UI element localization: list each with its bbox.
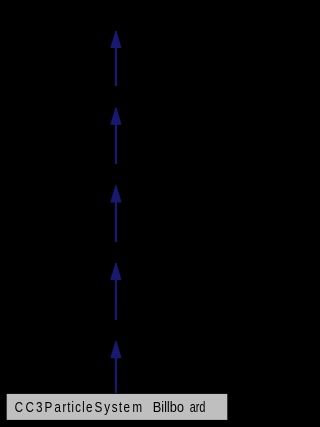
- svg-text:S: S: [95, 399, 103, 416]
- svg-text:l: l: [82, 399, 85, 416]
- arrow edge 2: [111, 108, 122, 164]
- inheritance diagram: CC3ParticleSystemBillboard: [0, 0, 232, 427]
- arrow edge 4: [111, 263, 122, 320]
- arrow edge 1 (topmost, to root base class): [111, 31, 122, 86]
- svg-text:P: P: [45, 399, 53, 416]
- svg-text:y: y: [104, 399, 110, 416]
- svg-text:C: C: [15, 399, 24, 416]
- arrow edge 5 (from CC3ParticleSystemBillboard node): [111, 341, 122, 393]
- svg-text:Billbo: Billbo: [153, 399, 184, 416]
- svg-text:ard: ard: [190, 399, 206, 416]
- node box CC3ParticleSystemBillboard: black border: [6, 393, 228, 421]
- node box fill: [7, 394, 228, 420]
- svg-text:s: s: [112, 399, 118, 416]
- svg-text:r: r: [62, 399, 66, 416]
- arrow edge 3: [111, 185, 122, 242]
- svg-text:e: e: [86, 399, 93, 416]
- svg-text:C: C: [25, 399, 34, 416]
- svg-text:3: 3: [36, 399, 43, 416]
- svg-text:c: c: [75, 399, 81, 416]
- svg-text:t: t: [119, 399, 122, 416]
- svg-text:i: i: [71, 399, 74, 416]
- svg-text:m: m: [132, 399, 142, 416]
- svg-text:a: a: [54, 399, 61, 416]
- svg-text:t: t: [67, 399, 70, 416]
- svg-text:e: e: [124, 399, 131, 416]
- node label "CC3ParticleSystemBillboard": [15, 399, 206, 416]
